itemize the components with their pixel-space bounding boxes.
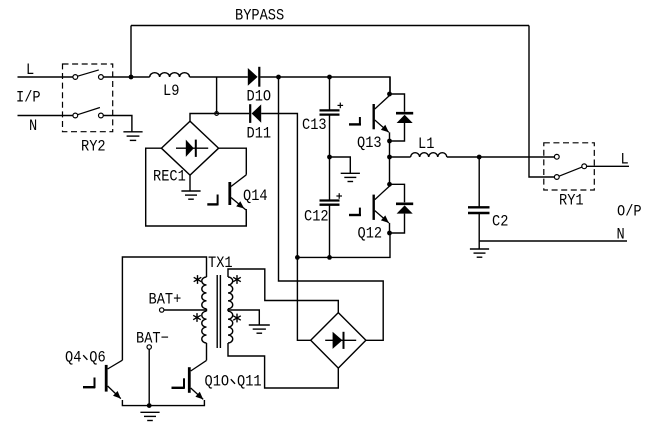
label input N — [29, 117, 37, 135]
wire Q12 freewheel diode bottom — [390, 214, 405, 233]
wire top rail node A to L9 — [131, 76, 150, 78]
wire primary bottom to Q10 Q11 collector — [206, 343, 208, 360]
transistor Q12 — [349, 186, 390, 223]
wire Q12 freewheel diode top — [390, 184, 405, 202]
wire D11 junction to D11 cathode — [217, 113, 250, 115]
transistor Q10 Q11 — [172, 360, 207, 399]
wire REC1 left vertex loop to Q14 emitter — [146, 148, 247, 226]
wire C2 ground stub — [478, 241, 480, 249]
diode D10 — [248, 67, 259, 87]
bridge rectifier REC1 diode — [176, 140, 208, 157]
svg-text:N: N — [617, 226, 625, 244]
svg-text:D11: D11 — [247, 125, 272, 143]
wire input L feed — [18, 76, 73, 78]
svg-text:N: N — [29, 117, 37, 135]
junction Q13 collector node — [387, 92, 392, 97]
relay RY2 enclosure — [63, 64, 113, 132]
svg-text:C12: C12 — [304, 208, 329, 226]
wire input N feed — [18, 115, 73, 117]
wire REC1 bottom vertex to ground — [189, 175, 191, 191]
label I/P — [16, 89, 41, 107]
svg-text:REC1: REC1 — [153, 168, 186, 186]
relay RY2 L switch arm — [78, 70, 99, 76]
wire bypass left drop to input node — [130, 26, 132, 78]
label output N — [617, 226, 625, 244]
label C2 — [492, 213, 508, 231]
wire D10 cathode to top DC rail corner — [260, 77, 390, 94]
svg-text:Q13: Q13 — [357, 134, 382, 152]
junction BAT- ground rail node — [147, 403, 152, 408]
label Q10 Q11 — [205, 373, 262, 391]
label Q13 — [357, 134, 382, 152]
label RY2 — [81, 138, 106, 156]
relay RY2 L contact right — [99, 75, 104, 80]
junction inverter output node — [387, 155, 392, 160]
svg-text:C13: C13 — [302, 116, 327, 134]
wire Q12 emitter stub — [389, 223, 391, 233]
ground at secondary center tap — [249, 325, 270, 333]
svg-text:BAT−: BAT− — [136, 330, 169, 348]
label D11 — [247, 125, 272, 143]
junction C12 negative rail node — [327, 255, 332, 260]
diode D11 — [250, 104, 261, 123]
wire D11 anode to negative-bus vertical — [261, 114, 311, 341]
label Q12 — [358, 225, 383, 243]
inductor L9 — [150, 73, 190, 77]
wire battery positive rail top — [122, 257, 206, 360]
wire L9 to D10 anode — [190, 76, 248, 78]
label L1 — [418, 135, 434, 153]
polarity mark secondary lower — [233, 314, 241, 323]
wire Q13 collector stub — [389, 77, 391, 94]
svg-text:L1: L1 — [418, 135, 434, 153]
ground at capacitor midpoint — [341, 173, 360, 181]
label D10 — [247, 88, 272, 106]
label TX1 — [208, 254, 233, 272]
wire midpoint node to ground stub — [330, 157, 351, 173]
relay RY1 enclosure — [544, 143, 595, 190]
label BAT+ — [149, 291, 182, 309]
wire RY1 common to output L — [587, 165, 629, 167]
wire mid node to L1 — [390, 156, 411, 158]
wire BYPASS top line — [131, 25, 529, 27]
wire branch L9 node down to D11 junction — [216, 77, 218, 114]
freewheel diode of Q12 — [396, 204, 413, 214]
svg-text:BAT+: BAT+ — [149, 291, 182, 309]
wire C2 bottom to output N node — [478, 213, 480, 241]
transistor Q14 — [207, 175, 246, 211]
junction Q12 collector node — [387, 182, 392, 187]
relay RY1 common contact — [582, 164, 587, 169]
relay RY2 N switch arm — [78, 108, 100, 115]
svg-text:D1O: D1O — [247, 88, 272, 106]
wire secondary top to lower bridge top vertex — [228, 269, 338, 313]
wire C13 bottom to midpoint node — [329, 115, 331, 157]
transistor Q13 — [349, 96, 390, 133]
transformer TX1 core — [217, 275, 220, 348]
label C12 — [304, 208, 329, 226]
svg-text:Q4: Q4 — [65, 349, 81, 367]
wire secondary bottom to lower bridge bottom vertex — [228, 343, 338, 388]
chassis ground at RY2 — [123, 132, 142, 141]
label output L — [621, 151, 629, 169]
junction D11 crossover node — [215, 112, 219, 116]
svg-text:C2: C2 — [492, 213, 508, 231]
svg-text:I/P: I/P — [16, 89, 41, 107]
wire C12 bottom to negative rail — [329, 205, 331, 258]
wire secondary tap chord — [227, 309, 229, 311]
wire inverter mid rail Q13 emitter to Q12 collector — [389, 132, 391, 186]
wire Q13 freewheel diode top — [390, 94, 405, 112]
wire positive feedback branch to lower bridge right vertex — [279, 77, 384, 340]
junction D10 cathode node — [276, 75, 281, 80]
wire C2 top connection — [478, 157, 480, 207]
wire BAT- lead down to ground rail — [148, 349, 150, 405]
relay RY1 inverter contact — [554, 154, 559, 159]
polarity mark secondary upper — [233, 275, 241, 284]
wire L1 to C2 node and RY1 inverter contact — [447, 156, 555, 158]
terminal BAT- — [147, 345, 151, 349]
wire D11 junction to REC1 top vertex — [190, 114, 217, 122]
svg-text:Q14: Q14 — [243, 187, 268, 205]
svg-text:L: L — [621, 151, 629, 169]
wire C12 top connection — [329, 157, 331, 201]
junction C13 top node — [327, 75, 332, 80]
ground at battery rail — [140, 412, 159, 420]
label Q4 Q6 — [65, 349, 106, 367]
relay RY1 switch arm — [559, 167, 582, 176]
polarity mark primary lower — [193, 313, 201, 322]
svg-text:O/P: O/P — [617, 203, 642, 221]
label BAT- — [136, 330, 169, 348]
polarity mark primary upper — [194, 275, 202, 284]
ground below C2 — [470, 249, 489, 257]
label O/P — [617, 203, 642, 221]
wire output N line — [479, 240, 627, 242]
bridge rectifier REC1 body — [161, 121, 218, 175]
svg-text:Q6: Q6 — [89, 349, 105, 367]
svg-text:RY1: RY1 — [559, 192, 584, 210]
svg-text:Q1O: Q1O — [205, 373, 230, 391]
label C13 — [302, 116, 327, 134]
wire Q13 freewheel diode bottom — [390, 123, 405, 141]
transformer TX1 secondary upper winding — [228, 277, 233, 309]
capacitor C2 — [468, 207, 490, 213]
label L9 — [163, 82, 179, 100]
junction C2 tap node — [477, 155, 482, 160]
wire bypass right drop to RY1 bypass contact — [529, 26, 554, 178]
label input L — [26, 61, 34, 79]
ground below REC1 — [181, 191, 200, 199]
wire RY2 N contact to chassis ground — [103, 116, 132, 132]
wire BAT+ tap to primary center — [164, 309, 207, 311]
transformer TX1 secondary lower winding — [228, 311, 233, 343]
label BYPASS — [235, 7, 284, 25]
wire negative DC rail — [297, 233, 390, 257]
junction Q13 emitter node — [387, 139, 392, 144]
svg-text:L9: L9 — [163, 82, 179, 100]
junction capacitor midpoint node — [327, 155, 332, 160]
label RY1 — [559, 192, 584, 210]
junction node A bypass tap — [129, 75, 134, 80]
inductor L1 — [411, 153, 447, 157]
transformer TX1 primary upper winding — [202, 277, 207, 309]
bridge rectifier BR2 diode — [325, 332, 356, 349]
wire Q14 emitter corner — [245, 209, 247, 226]
relay RY2 N contact left — [73, 113, 78, 118]
label Q14 — [243, 187, 268, 205]
svg-text:BYPASS: BYPASS — [235, 7, 284, 25]
label REC1 — [153, 168, 186, 186]
svg-text:Q11: Q11 — [237, 373, 262, 391]
junction Q12 emitter node — [387, 231, 392, 236]
transistor Q4 Q6 — [83, 360, 122, 398]
wire emitter ground rail — [122, 400, 204, 406]
relay RY1 bypass contact — [554, 175, 559, 180]
junction negative rail left node — [295, 255, 300, 260]
relay RY2 N contact right — [99, 113, 104, 118]
svg-text:TX1: TX1 — [208, 254, 233, 272]
relay RY2 L contact left — [73, 75, 78, 80]
terminal BAT+ — [160, 308, 164, 312]
bridge rectifier BR2 body — [311, 313, 366, 369]
capacitor C13 — [320, 103, 344, 115]
svg-text:L: L — [26, 61, 34, 79]
svg-text:Q12: Q12 — [358, 225, 383, 243]
svg-text:RY2: RY2 — [81, 138, 106, 156]
freewheel diode of Q13 — [396, 113, 413, 123]
wire secondary center tap to ground — [228, 310, 259, 325]
wire REC1 right vertex to Q14 collector — [219, 148, 247, 175]
wire RY2 L contact to node A — [103, 76, 131, 78]
wire primary tap chord — [206, 309, 208, 311]
capacitor C12 — [320, 193, 343, 205]
transformer TX1 primary lower winding — [202, 311, 207, 343]
wire C13 top connection — [329, 77, 331, 110]
